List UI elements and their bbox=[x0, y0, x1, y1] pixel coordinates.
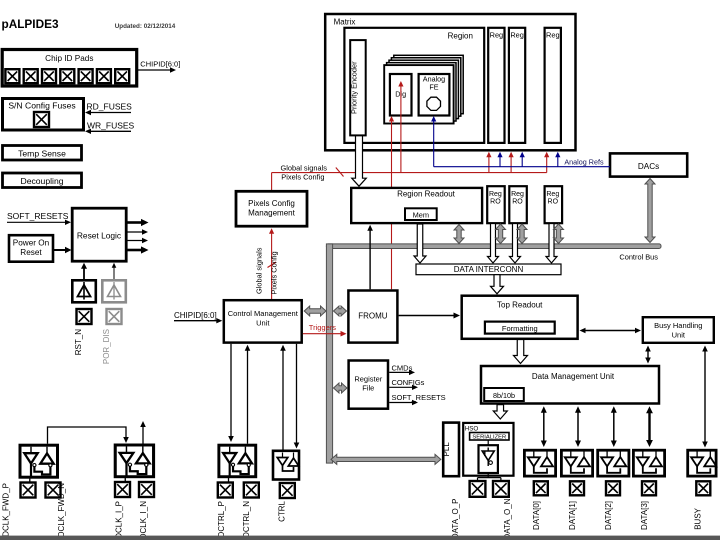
pad FUSE bbox=[34, 112, 49, 127]
svg-text:Updated: 02/12/2014: Updated: 02/12/2014 bbox=[115, 23, 176, 30]
block Reg column 1 bbox=[488, 28, 504, 143]
svg-text:Reg: Reg bbox=[511, 191, 524, 198]
pixel front cell bbox=[384, 65, 453, 123]
block Reset Logic bbox=[72, 208, 126, 261]
svg-text:SERIALIZER: SERIALIZER bbox=[472, 435, 506, 441]
svg-text:DATA[3]: DATA[3] bbox=[640, 501, 649, 530]
wire DCLK_FWD loop to DCLK_I bbox=[48, 427, 127, 444]
svg-text:Global signals: Global signals bbox=[281, 164, 328, 173]
gray arrow control bus to PLL bbox=[331, 454, 441, 464]
io cell DATA[3] bbox=[633, 450, 664, 476]
wire red branch to Reg column 3 bbox=[546, 155, 548, 173]
block Dig bbox=[390, 74, 412, 116]
wire SOFT_RESETS arrow bbox=[389, 402, 414, 404]
block Reg RO 2 bbox=[509, 186, 527, 223]
svg-text:Chip ID Pads: Chip ID Pads bbox=[45, 54, 93, 63]
block Analog FE bbox=[419, 74, 450, 116]
pad CHIPID3 bbox=[60, 69, 74, 83]
svg-text:DCTRL_N: DCTRL_N bbox=[242, 501, 251, 538]
block Priority Encoder bbox=[350, 40, 366, 135]
svg-text:HSDATA_O_N: HSDATA_O_N bbox=[503, 498, 512, 540]
hollow arrow Data Interconn to Top Readout bbox=[491, 275, 504, 294]
wire DCTRL to CMU in bbox=[247, 349, 249, 444]
wire SOFT_RESETS arrow bbox=[7, 221, 67, 223]
block Reg RO 3 bbox=[545, 186, 563, 223]
svg-text:RO: RO bbox=[490, 199, 501, 206]
pad CTRL bbox=[280, 483, 295, 498]
wire DMU to DATA[1] double arrow bbox=[577, 412, 579, 442]
block Reg column 2 bbox=[509, 28, 525, 143]
block SERIALIZER bbox=[470, 433, 509, 441]
block Reg column 3 bbox=[545, 28, 561, 143]
svg-text:CHIPID[6:0]: CHIPID[6:0] bbox=[140, 60, 180, 69]
wire FROMU to Region Readout bbox=[369, 229, 371, 290]
wire CONFIGs arrow bbox=[389, 386, 414, 388]
svg-text:Unit: Unit bbox=[256, 319, 270, 328]
block S/N Config Fuses bbox=[3, 99, 84, 131]
gray arrow Reg RO 2 to Control Bus bbox=[517, 224, 527, 244]
wire RD_FUSES arrow bbox=[89, 112, 131, 114]
pad CHIPID1 bbox=[24, 69, 38, 83]
svg-text:Temp Sense: Temp Sense bbox=[18, 148, 66, 158]
wire CHIPID to CMU bbox=[174, 320, 219, 322]
svg-text:CONFIGs: CONFIGs bbox=[392, 378, 425, 387]
svg-text:CTRL: CTRL bbox=[277, 500, 286, 521]
svg-text:Reg: Reg bbox=[546, 31, 560, 40]
wire CMU to Pixels Config Management red bbox=[271, 232, 273, 299]
block PLL bbox=[443, 423, 459, 477]
svg-text:SOFT_RESETS: SOFT_RESETS bbox=[392, 393, 446, 402]
svg-text:RO: RO bbox=[512, 199, 523, 206]
io cell DATA[0] bbox=[524, 450, 555, 476]
io cell DATA[2] bbox=[598, 450, 629, 476]
svg-text:Reg: Reg bbox=[489, 191, 502, 198]
bus Control Bus horizontal bbox=[326, 244, 661, 249]
gray arrow Region Readout to Control Bus bbox=[454, 225, 464, 244]
gray arrow control bus to FROMU bbox=[334, 306, 347, 316]
svg-text:Reg: Reg bbox=[510, 31, 524, 40]
wire reset output 1 bbox=[127, 221, 142, 224]
svg-text:SOFT_RESETS: SOFT_RESETS bbox=[7, 211, 69, 221]
pad DATA[0] bbox=[534, 481, 548, 495]
svg-text:DCLK_FWD_N: DCLK_FWD_N bbox=[57, 483, 66, 537]
pad BUSY bbox=[696, 481, 710, 495]
hollow arrow Region Readout to Data Interconn bbox=[414, 224, 426, 263]
block Mem bbox=[405, 208, 437, 220]
hollow arrow Reg RO 2 to Data Interconn bbox=[510, 224, 521, 264]
hollow arrow Reg RO 3 to Data Interconn bbox=[546, 224, 557, 264]
svg-text:Unit: Unit bbox=[672, 331, 686, 340]
svg-text:Power On: Power On bbox=[13, 239, 50, 248]
block Reg RO 1 bbox=[487, 186, 505, 223]
svg-text:CHIPID[6:0]: CHIPID[6:0] bbox=[174, 311, 217, 320]
block Power On Reset bbox=[9, 235, 53, 262]
svg-text:Formatting: Formatting bbox=[502, 324, 538, 333]
svg-text:Reset: Reset bbox=[20, 248, 42, 257]
block Data Management Unit bbox=[481, 366, 659, 404]
wire BHU to DMU double arrow bbox=[647, 351, 649, 359]
svg-text:Region Readout: Region Readout bbox=[397, 190, 456, 199]
svg-text:DATA[2]: DATA[2] bbox=[604, 501, 613, 530]
svg-text:Pixels Config: Pixels Config bbox=[270, 251, 279, 294]
svg-text:S/N Config Fuses: S/N Config Fuses bbox=[8, 101, 75, 111]
pad CHIPID5 bbox=[97, 69, 111, 83]
block Decoupling bbox=[3, 173, 82, 188]
svg-text:RO: RO bbox=[548, 199, 559, 206]
svg-text:FROMU: FROMU bbox=[358, 312, 388, 321]
wire WR_FUSES arrow bbox=[89, 130, 131, 132]
pad DCTRL_N bbox=[244, 483, 259, 498]
hollow arrow Top Readout to DMU bbox=[514, 340, 528, 364]
bottom border bar bbox=[0, 536, 720, 540]
block Register File bbox=[349, 361, 388, 409]
wire red branch to Reg column 2 bbox=[510, 155, 512, 173]
bus slash on red vertical bbox=[268, 262, 277, 268]
block Busy Handling Unit bbox=[643, 317, 714, 343]
svg-text:Matrix: Matrix bbox=[334, 18, 356, 27]
wire reset output 3 bbox=[127, 240, 144, 242]
block FROMU bbox=[348, 291, 397, 343]
svg-text:DATA[0]: DATA[0] bbox=[532, 501, 541, 530]
svg-text:HSDATA_O_P: HSDATA_O_P bbox=[451, 499, 460, 540]
svg-text:Control Management: Control Management bbox=[228, 309, 299, 318]
svg-text:DATA[1]: DATA[1] bbox=[568, 501, 577, 530]
io cell DCTRL bbox=[219, 445, 256, 481]
wire blue branch to Reg column 1 bbox=[499, 155, 501, 167]
svg-text:WR_FUSES: WR_FUSES bbox=[87, 121, 135, 131]
wire RST_N to Reset Logic bbox=[83, 267, 85, 280]
wire blue branch to Analog FE bbox=[433, 120, 435, 167]
block Matrix bbox=[325, 14, 575, 150]
svg-text:Global signals: Global signals bbox=[255, 247, 264, 294]
svg-text:Pixels Config: Pixels Config bbox=[281, 173, 324, 182]
svg-text:POR_DIS: POR_DIS bbox=[102, 329, 111, 364]
block DACs bbox=[610, 153, 687, 176]
wire POR_DIS to Reset Logic bbox=[113, 266, 115, 280]
wire red FROMU to Dig bbox=[391, 120, 393, 289]
wire DMU to DATA[3] double arrow bbox=[648, 412, 650, 441]
pad DATA[3] bbox=[642, 481, 656, 495]
pad HSDATA_O_P bbox=[470, 481, 486, 497]
hollow arrow Priority Encoder to Region Readout bbox=[352, 136, 367, 186]
svg-text:File: File bbox=[362, 384, 374, 393]
wire DCLK_I clock up arrow bbox=[142, 425, 144, 444]
svg-text:Data Management Unit: Data Management Unit bbox=[532, 372, 615, 381]
wire DMU to DATA[2] double arrow bbox=[613, 412, 615, 442]
pad DCLK_FWD_N bbox=[46, 483, 61, 498]
wire reset output 4 bbox=[127, 249, 142, 252]
svg-text:Analog Refs: Analog Refs bbox=[564, 157, 604, 166]
wire Top Readout to Busy Handling double arrow bbox=[583, 330, 638, 332]
pad RST_N bbox=[77, 309, 92, 324]
pad HSDATA_O_N bbox=[493, 481, 509, 497]
wire CMDs arrow bbox=[389, 371, 411, 373]
gray arrow CMU to control bus bbox=[304, 306, 326, 316]
wire reset output 2 bbox=[127, 231, 144, 233]
svg-text:DCTRL_P: DCTRL_P bbox=[217, 501, 226, 537]
svg-text:BUSY: BUSY bbox=[694, 507, 703, 529]
diode octagon in Analog FE bbox=[427, 97, 441, 110]
wire Power On Reset to Reset Logic bbox=[53, 249, 68, 251]
block Temp Sense bbox=[3, 146, 82, 161]
driver HSO output bbox=[479, 445, 498, 473]
pad CHIPID6 bbox=[115, 69, 129, 83]
wire red branch to Reg column 1 bbox=[488, 155, 490, 173]
svg-text:FE: FE bbox=[429, 83, 438, 92]
pad CHIPID0 bbox=[5, 69, 19, 83]
svg-text:Priority Encoder: Priority Encoder bbox=[349, 61, 358, 114]
svg-text:Reset Logic: Reset Logic bbox=[77, 231, 121, 241]
io cell DCLK_FWD bbox=[20, 445, 58, 482]
block Chip ID Pads bbox=[2, 50, 137, 87]
wire DMU to DATA[0] double arrow bbox=[543, 412, 545, 442]
pixel stack bbox=[394, 55, 463, 113]
wire blue branch to Reg column 3 bbox=[557, 155, 559, 167]
svg-text:Control Bus: Control Bus bbox=[619, 252, 658, 261]
pad DCLK_I_N bbox=[139, 482, 154, 497]
wire Triggers CMU to FROMU bbox=[303, 333, 343, 335]
wire FROMU to Top Readout bbox=[399, 315, 457, 317]
svg-text:Mem: Mem bbox=[413, 211, 429, 220]
svg-text:RST_N: RST_N bbox=[74, 329, 83, 355]
pad POR_DIS bbox=[107, 309, 122, 324]
wire Pixels Config Management riser bbox=[271, 173, 273, 190]
gray arrow control bus to Register File bbox=[334, 383, 348, 393]
pad DCLK_FWD_P bbox=[21, 483, 36, 498]
block HSO bbox=[463, 423, 513, 476]
svg-text:RD_FUSES: RD_FUSES bbox=[87, 102, 133, 112]
svg-text:DATA INTERCONN: DATA INTERCONN bbox=[454, 265, 524, 274]
wire CTRL to CMU in bbox=[282, 349, 284, 450]
svg-text:Top Readout: Top Readout bbox=[497, 301, 543, 310]
bus slash mark on red wire bbox=[336, 168, 344, 177]
pad CHIPID4 bbox=[79, 69, 93, 83]
io cell CTRL bbox=[273, 451, 299, 480]
block 8b/10b bbox=[484, 388, 524, 401]
io cell BUSY bbox=[688, 450, 717, 476]
wire global signals horizontal red bbox=[272, 172, 547, 174]
wire serializer to driver bbox=[487, 440, 489, 445]
gray arrow Reg RO 1 to Control Bus bbox=[496, 224, 506, 244]
pad DCLK_I_P bbox=[115, 482, 130, 497]
svg-text:pALPIDE3: pALPIDE3 bbox=[2, 17, 59, 31]
wire Analog Refs horizontal bbox=[434, 166, 610, 168]
block Control Management Unit bbox=[224, 300, 302, 342]
wire red pixels config up into Dig bbox=[400, 85, 402, 173]
svg-text:HSO: HSO bbox=[465, 425, 479, 432]
pad DATA[2] bbox=[606, 481, 620, 495]
wire CMU to DCTRL out bbox=[230, 344, 232, 438]
wire blue branch to Reg column 2 bbox=[521, 155, 523, 167]
svg-text:Reg: Reg bbox=[490, 31, 504, 40]
svg-text:Pixels Config: Pixels Config bbox=[248, 199, 295, 208]
wire CHIPID out arrow bbox=[136, 69, 172, 71]
block DATA INTERCONN bbox=[416, 264, 561, 275]
gray arrow Reg RO 3 to Control Bus bbox=[554, 224, 564, 244]
svg-text:Management: Management bbox=[248, 209, 295, 218]
pad DATA[1] bbox=[570, 481, 584, 495]
wire BHU to BUSY pad cell bbox=[704, 351, 706, 443]
wire CMU to CTRL out bbox=[296, 344, 298, 445]
buffer RST_N bbox=[72, 280, 96, 302]
block Top Readout bbox=[462, 296, 578, 339]
block Region bbox=[344, 28, 484, 143]
hollow arrow Reg RO 1 to Data Interconn bbox=[488, 224, 499, 264]
gray arrow DACs to Control Bus bbox=[645, 179, 655, 243]
hollow arrow DMU to HSO bbox=[493, 405, 507, 419]
pad CHIPID2 bbox=[42, 69, 56, 83]
wire HSO to HSDATA pads bbox=[478, 474, 501, 481]
svg-text:Region: Region bbox=[448, 32, 473, 41]
svg-text:Busy Handling: Busy Handling bbox=[654, 321, 702, 330]
buffer POR_DIS bbox=[102, 280, 126, 302]
svg-text:Triggers: Triggers bbox=[309, 323, 336, 332]
svg-text:Decoupling: Decoupling bbox=[21, 176, 64, 186]
io cell DATA[1] bbox=[561, 450, 592, 476]
svg-text:DCLK_FWD_P: DCLK_FWD_P bbox=[1, 483, 10, 537]
block Region Readout bbox=[351, 188, 482, 223]
pad DCTRL_P bbox=[218, 483, 233, 498]
bus vertical control bus bbox=[326, 244, 332, 463]
svg-text:Register: Register bbox=[354, 375, 382, 384]
svg-text:DCLK_I_N: DCLK_I_N bbox=[139, 501, 148, 539]
svg-text:Reg: Reg bbox=[546, 191, 559, 198]
svg-text:8b/10b: 8b/10b bbox=[493, 391, 515, 400]
block Formatting bbox=[485, 322, 555, 334]
svg-text:DACs: DACs bbox=[638, 162, 659, 171]
svg-text:DCLK_I_P: DCLK_I_P bbox=[115, 501, 124, 539]
io cell DCLK_I bbox=[115, 445, 153, 482]
svg-text:PLL: PLL bbox=[442, 442, 451, 457]
block Pixels Config Management bbox=[236, 191, 307, 226]
